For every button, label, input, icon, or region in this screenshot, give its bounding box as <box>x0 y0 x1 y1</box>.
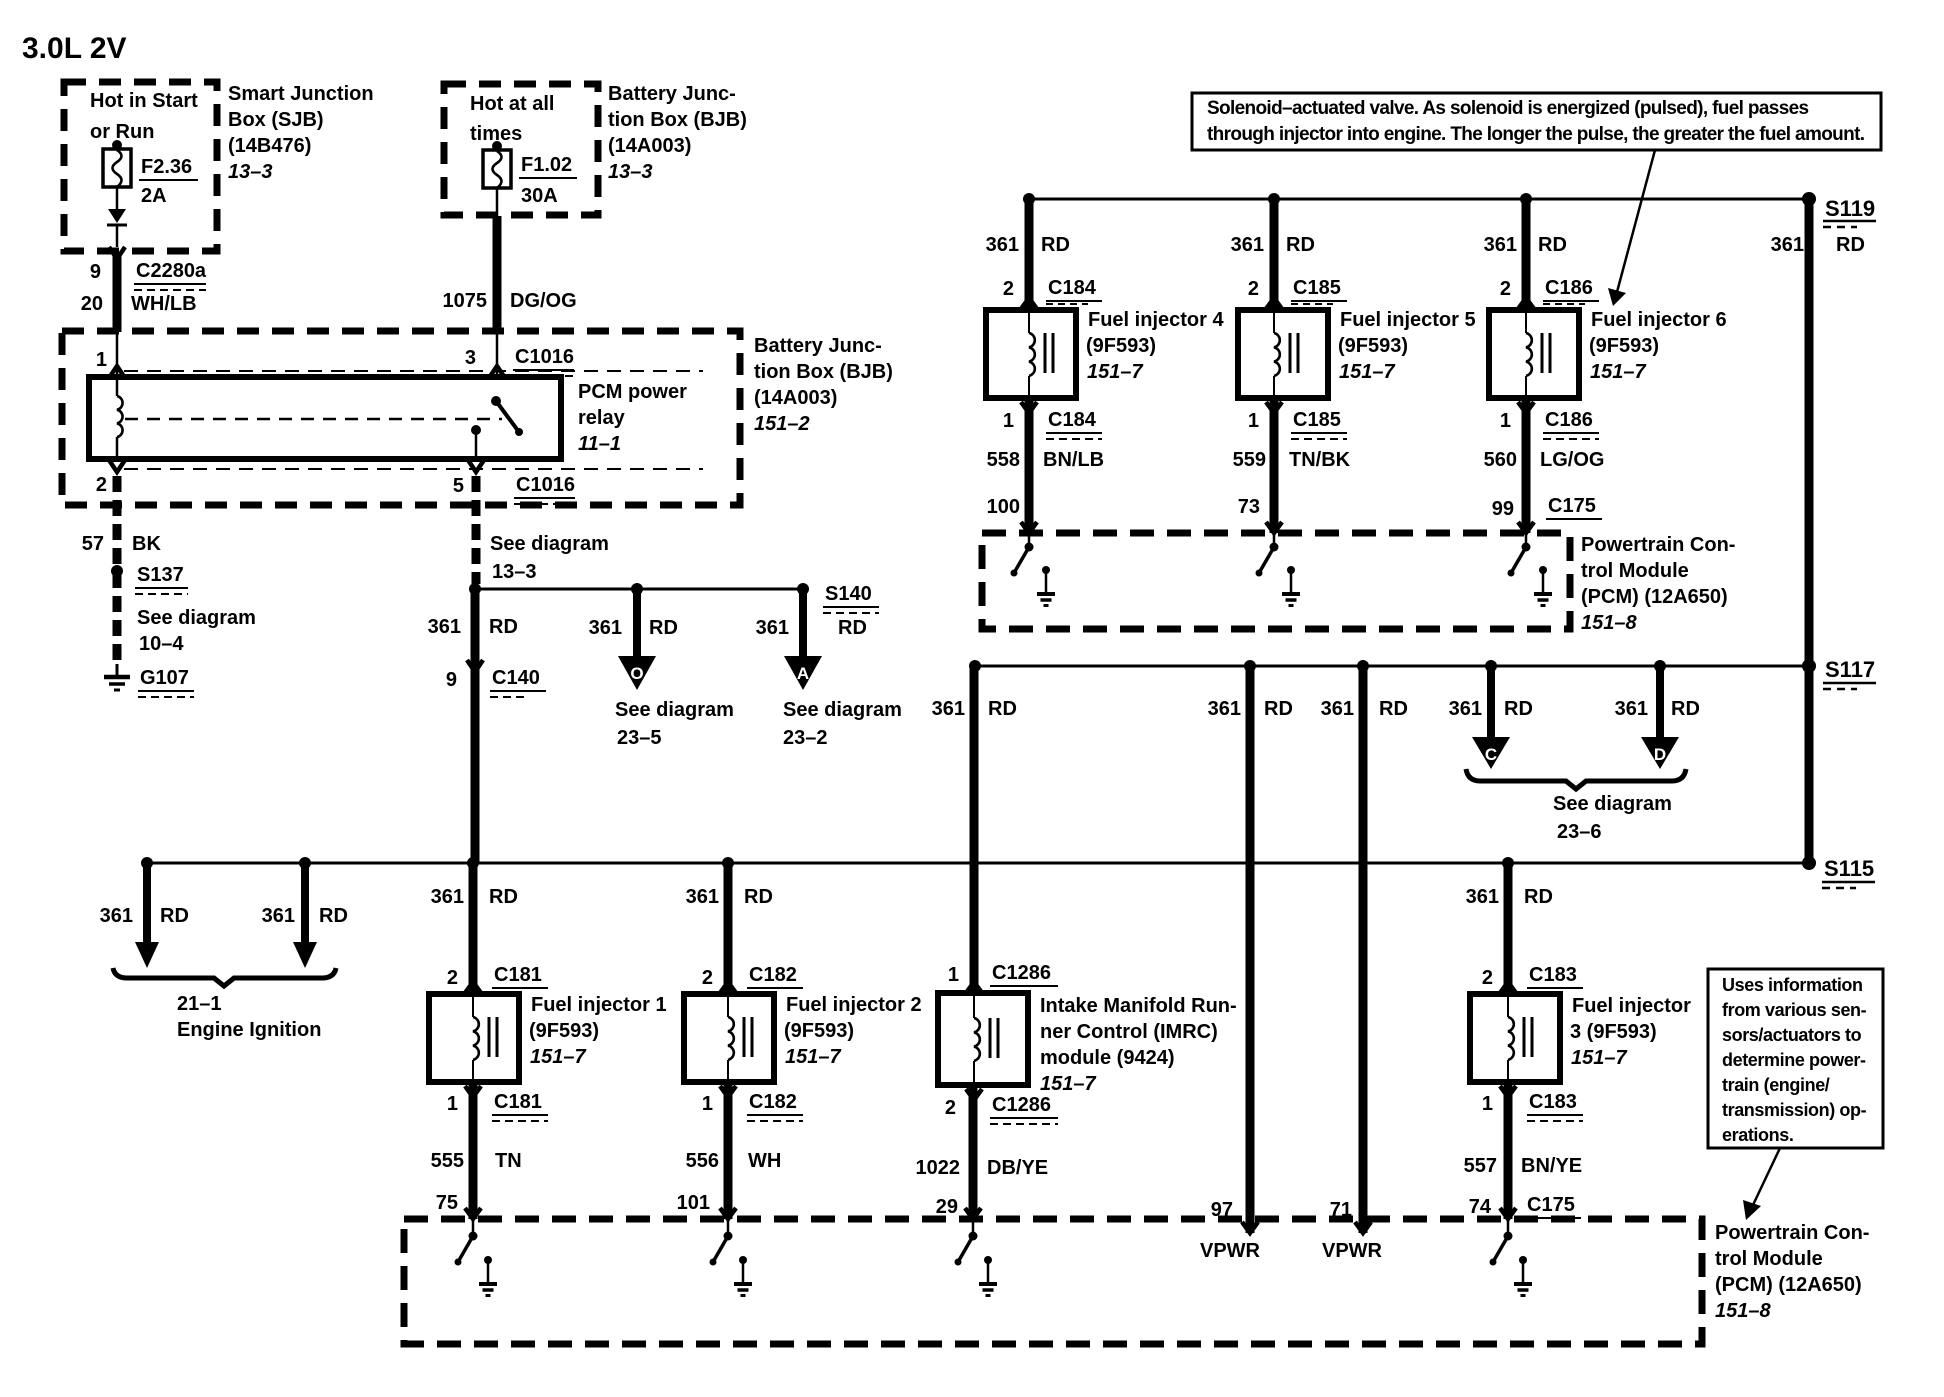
svg-text:Smart Junction: Smart Junction <box>228 83 374 105</box>
svg-text:361: 361 <box>428 616 461 638</box>
wire 558 BN/LB to PCM pin 100 <box>987 398 1104 533</box>
label 21-1 Engine Ignition <box>177 993 321 1041</box>
svg-text:Fuel injector: Fuel injector <box>1572 995 1691 1017</box>
fuel injector FI5 box <box>1238 310 1328 398</box>
node junction S119 at FI4 <box>1023 193 1035 205</box>
label Fuel injector 1 (9F593) 151-7 <box>529 994 667 1068</box>
wire 361 RD to FI6 <box>1484 199 1567 310</box>
svg-text:74: 74 <box>1469 1196 1492 1218</box>
svg-text:train (engine/: train (engine/ <box>1722 1075 1830 1095</box>
svg-text:DG/OG: DG/OG <box>510 290 577 312</box>
svg-text:RD: RD <box>1041 234 1070 256</box>
label 1075 DG/OG <box>443 290 577 312</box>
svg-text:module (9424): module (9424) <box>1040 1047 1174 1069</box>
IMRC module box <box>938 993 1028 1085</box>
brace see diagram 23-6 <box>1466 769 1686 789</box>
svg-text:29: 29 <box>936 1196 958 1218</box>
switch PCM driver FI2 <box>710 1219 733 1266</box>
label Battery Junction Box (BJB) (14A003) 151-2 <box>754 335 893 435</box>
connector C185 pin 1 <box>1248 402 1347 439</box>
svg-text:Box (SJB): Box (SJB) <box>228 109 324 131</box>
svg-text:See diagram: See diagram <box>615 699 734 721</box>
box Battery Junction Box (BJB) relay dashed outline <box>62 331 740 505</box>
fuel injector FI1 box <box>429 994 519 1082</box>
svg-text:sors/actuators to: sors/actuators to <box>1722 1025 1862 1045</box>
svg-text:1: 1 <box>948 964 959 986</box>
wire bus S115 <box>147 862 1809 865</box>
svg-text:See diagram: See diagram <box>1553 793 1672 815</box>
svg-text:Battery Junc-: Battery Junc- <box>608 83 736 105</box>
svg-text:C186: C186 <box>1545 409 1593 431</box>
svg-text:C1016: C1016 <box>515 346 574 368</box>
label 20 WH/LB <box>81 293 197 315</box>
splice S119 <box>1802 192 1876 227</box>
wire 556 WH to PCM pin 101 <box>677 1082 782 1219</box>
svg-text:from various sen-: from various sen- <box>1722 1000 1867 1020</box>
svg-text:C175: C175 <box>1527 1194 1575 1216</box>
svg-text:determine power-: determine power- <box>1722 1050 1866 1070</box>
svg-text:Solenoid–actuated valve. As so: Solenoid–actuated valve. As solenoid is … <box>1207 98 1809 119</box>
svg-text:13–3: 13–3 <box>608 161 653 183</box>
svg-text:361: 361 <box>1771 234 1804 256</box>
svg-text:1075: 1075 <box>443 290 488 312</box>
svg-text:11–1: 11–1 <box>578 433 621 455</box>
node junction S119 at FI6 <box>1520 193 1532 205</box>
node splice junction at feed <box>469 583 481 595</box>
svg-text:151–8: 151–8 <box>1581 612 1637 634</box>
switch PCM driver FI6 <box>1508 533 1531 577</box>
fuel injector FI2 box <box>684 994 774 1082</box>
switch PCM driver FI1 <box>455 1219 478 1266</box>
wire bus S117 <box>975 665 1809 668</box>
svg-text:(9F593): (9F593) <box>529 1020 599 1042</box>
label Smart Junction Box (SJB) (14B476) 13-3 <box>228 83 374 183</box>
ground PCM driver FI1 <box>479 1256 497 1296</box>
svg-text:C1286: C1286 <box>992 1094 1051 1116</box>
wire main 361 RD feed down to S115 <box>471 589 480 863</box>
node junction S115 at FI1 <box>467 857 479 869</box>
svg-text:(9F593): (9F593) <box>1338 335 1408 357</box>
svg-text:C1016: C1016 <box>516 474 575 496</box>
svg-text:1: 1 <box>1482 1093 1493 1115</box>
svg-text:S119: S119 <box>1825 196 1875 221</box>
svg-text:TN: TN <box>495 1150 522 1172</box>
svg-text:(14B476): (14B476) <box>228 135 311 157</box>
svg-text:RD: RD <box>744 886 773 908</box>
title 3.0L 2V <box>22 32 127 65</box>
svg-text:361: 361 <box>1321 698 1354 720</box>
svg-text:See diagram: See diagram <box>137 607 256 629</box>
svg-text:151–7: 151–7 <box>785 1046 841 1068</box>
svg-text:361: 361 <box>100 905 133 927</box>
svg-text:tion Box (BJB): tion Box (BJB) <box>608 109 747 131</box>
svg-text:2: 2 <box>1482 967 1493 989</box>
svg-text:or Run: or Run <box>90 121 154 143</box>
svg-text:2: 2 <box>702 967 713 989</box>
wire bus S119 <box>1029 198 1809 201</box>
svg-text:C183: C183 <box>1529 1091 1577 1113</box>
arrow O to diagram 23-5 <box>618 583 656 690</box>
svg-text:RD: RD <box>160 905 189 927</box>
svg-text:(14A003): (14A003) <box>608 135 691 157</box>
svg-text:C182: C182 <box>749 964 797 986</box>
label 5 C1016 <box>453 474 575 504</box>
svg-text:3.0L 2V: 3.0L 2V <box>22 32 127 65</box>
svg-text:Uses information: Uses information <box>1722 975 1863 995</box>
svg-text:20: 20 <box>81 293 103 315</box>
wire 560 LG/OG to PCM pin 99 C175 <box>1484 398 1605 533</box>
svg-text:C184: C184 <box>1048 277 1097 299</box>
svg-text:23–6: 23–6 <box>1557 821 1602 843</box>
wire 361 RD to FI2 <box>686 863 773 994</box>
wire 361 RD to FI5 <box>1231 199 1315 310</box>
svg-text:1022: 1022 <box>916 1157 961 1179</box>
connector C182 pin 2 <box>702 964 803 993</box>
wire VPWR 71 down to PCM <box>1321 666 1408 1233</box>
svg-text:VPWR: VPWR <box>1200 1240 1261 1262</box>
svg-text:57: 57 <box>82 533 104 555</box>
svg-text:560: 560 <box>1484 449 1517 471</box>
svg-text:Fuel injector 4: Fuel injector 4 <box>1088 309 1224 331</box>
ground PCM driver IMRC <box>979 1256 997 1296</box>
label See diagram 10-4 <box>137 607 256 655</box>
relay coil-switch dashed link <box>125 418 502 421</box>
svg-text:361: 361 <box>1449 698 1482 720</box>
svg-text:C185: C185 <box>1293 409 1341 431</box>
svg-text:2: 2 <box>945 1097 956 1119</box>
svg-text:97: 97 <box>1211 1199 1233 1221</box>
svg-text:erations.: erations. <box>1722 1125 1793 1145</box>
label 361 RD at A arrow <box>756 617 867 639</box>
wire VPWR 97 down to PCM <box>1208 666 1293 1233</box>
wire 361 RD to IMRC module <box>932 666 1017 993</box>
connector C1286 pin 1 <box>948 962 1058 993</box>
svg-text:C181: C181 <box>494 1091 542 1113</box>
fuel injector FI6 box <box>1489 310 1579 398</box>
note arrow to PCM <box>1743 1148 1780 1220</box>
diode symbol below fuse F2.36 <box>107 209 127 247</box>
svg-text:151–7: 151–7 <box>1590 361 1646 383</box>
label VPWR 71 <box>1322 1199 1383 1262</box>
arrow engine ignition left <box>135 857 159 968</box>
svg-text:151–7: 151–7 <box>1571 1047 1627 1069</box>
svg-text:RD: RD <box>1524 886 1553 908</box>
connector C182 pin 1 <box>702 1086 803 1121</box>
pin 5 wire out of relay switch <box>468 460 484 472</box>
pin 3 wire into relay switch <box>489 332 505 378</box>
wire WH/LB from SJB to BJB pin 1 <box>113 252 122 332</box>
label See diagram 23-5 <box>615 699 734 749</box>
connector C1286 pin 2 <box>945 1089 1058 1124</box>
arrow A to diagram 23-2 <box>784 589 822 690</box>
svg-text:30A: 30A <box>521 185 558 207</box>
svg-text:13–3: 13–3 <box>228 161 273 183</box>
label Hot in Start or Run <box>90 90 198 143</box>
svg-text:S137: S137 <box>137 564 184 586</box>
label Fuel injector 3 (9F593) 151-7 <box>1570 995 1691 1069</box>
svg-text:C185: C185 <box>1293 277 1341 299</box>
svg-text:C1286: C1286 <box>992 962 1051 984</box>
label See diagram 13-3 <box>490 533 609 583</box>
connector C184 pin 2 <box>1003 277 1102 309</box>
label Fuel injector 2 (9F593) 151-7 <box>784 994 922 1068</box>
svg-text:Powertrain Con-: Powertrain Con- <box>1581 534 1735 556</box>
svg-text:D: D <box>1654 745 1666 764</box>
svg-text:O: O <box>630 664 643 683</box>
svg-text:RD: RD <box>319 905 348 927</box>
wire 555 TN to PCM pin 75 <box>431 1082 522 1219</box>
svg-text:151–2: 151–2 <box>754 413 810 435</box>
node junction S115 at FI3 <box>1502 857 1514 869</box>
note box uses information <box>1708 969 1883 1148</box>
box Powertrain Control Module PCM top dashed <box>982 533 1570 629</box>
node junction S117 VPWR 97 <box>1244 660 1256 672</box>
svg-text:RD: RD <box>988 698 1017 720</box>
svg-text:RD: RD <box>1264 698 1293 720</box>
arrow D to diagram 23-6 <box>1641 660 1679 769</box>
svg-text:F1.02: F1.02 <box>521 154 572 176</box>
wire right bus 361 RD vertical <box>1805 199 1814 863</box>
svg-text:1: 1 <box>1248 410 1259 432</box>
svg-text:WH/LB: WH/LB <box>131 293 197 315</box>
svg-text:557: 557 <box>1464 1155 1497 1177</box>
label PCM power relay 11-1 <box>578 381 687 455</box>
svg-text:(PCM) (12A650): (PCM) (12A650) <box>1581 586 1728 608</box>
connector C2280a pass-through arrow pin 9 <box>109 247 125 259</box>
svg-text:S115: S115 <box>1824 856 1874 881</box>
svg-text:S117: S117 <box>1825 657 1875 682</box>
svg-text:relay: relay <box>578 407 626 429</box>
svg-text:BK: BK <box>132 533 161 555</box>
svg-text:RD: RD <box>1671 698 1700 720</box>
svg-text:VPWR: VPWR <box>1322 1240 1383 1262</box>
svg-text:Fuel injector 1: Fuel injector 1 <box>531 994 667 1016</box>
svg-text:361: 361 <box>686 886 719 908</box>
svg-text:361: 361 <box>1615 698 1648 720</box>
label Fuel injector 5 (9F593) 151-7 <box>1338 309 1476 383</box>
wire BK pin2 dashed to ground <box>113 476 122 664</box>
svg-text:LG/OG: LG/OG <box>1540 449 1604 471</box>
svg-text:C2280a: C2280a <box>136 260 207 282</box>
svg-text:(9F593): (9F593) <box>1086 335 1156 357</box>
label 361 RD right bus <box>1771 234 1865 256</box>
svg-text:(9F593): (9F593) <box>784 1020 854 1042</box>
svg-text:1: 1 <box>702 1093 713 1115</box>
svg-text:2: 2 <box>96 474 107 496</box>
label Fuel injector 4 (9F593) 151-7 <box>1086 309 1224 383</box>
svg-text:1: 1 <box>447 1093 458 1115</box>
svg-text:S140: S140 <box>825 583 872 605</box>
label 57 BK <box>82 533 162 555</box>
note box solenoid-actuated valve <box>1192 93 1881 150</box>
switch PCM driver FI4 <box>1011 533 1034 577</box>
label VPWR 97 <box>1200 1199 1261 1262</box>
svg-text:23–5: 23–5 <box>617 727 662 749</box>
svg-text:361: 361 <box>431 886 464 908</box>
arrow C to diagram 23-6 <box>1472 660 1510 769</box>
svg-text:RD: RD <box>1379 698 1408 720</box>
svg-text:361: 361 <box>1231 234 1264 256</box>
label 361 RD ignition left <box>100 905 189 927</box>
connector C183 pin 2 <box>1482 964 1583 993</box>
svg-text:151–8: 151–8 <box>1715 1300 1771 1322</box>
svg-text:Battery Junc-: Battery Junc- <box>754 335 882 357</box>
svg-text:2: 2 <box>1248 278 1259 300</box>
svg-text:transmission) op-: transmission) op- <box>1722 1100 1867 1120</box>
box Powertrain Control Module PCM bottom dashed <box>404 1219 1702 1344</box>
label 361 RD at D arrow <box>1615 698 1700 720</box>
wire 557 BN/YE to PCM pin 74 C175 <box>1464 1082 1583 1219</box>
svg-text:361: 361 <box>1484 234 1517 256</box>
splice S137 <box>111 564 188 594</box>
wire 361 RD to FI1 <box>431 863 518 994</box>
svg-text:WH: WH <box>748 1150 781 1172</box>
switch PCM driver FI5 <box>1256 533 1279 577</box>
svg-text:TN/BK: TN/BK <box>1289 449 1351 471</box>
label Powertrain Control Module (PCM) (12A650) 151-8 bottom <box>1715 1222 1869 1322</box>
svg-text:2: 2 <box>1500 278 1511 300</box>
svg-text:PCM power: PCM power <box>578 381 687 403</box>
relay U1 PCM power relay box <box>89 377 561 459</box>
pin 2 wire out of relay coil <box>96 460 125 496</box>
connector C186 pin 1 <box>1500 402 1599 439</box>
svg-text:BN/LB: BN/LB <box>1043 449 1104 471</box>
svg-text:151–7: 151–7 <box>1040 1073 1096 1095</box>
svg-text:361: 361 <box>986 234 1019 256</box>
connector C184 pin 1 <box>1003 402 1102 439</box>
svg-text:C186: C186 <box>1545 277 1593 299</box>
wire 559 TN/BK to PCM pin 73 <box>1233 398 1351 533</box>
connector C1016 dashed plane top <box>124 370 703 372</box>
svg-text:361: 361 <box>932 698 965 720</box>
connector C183 pin 1 <box>1482 1086 1583 1121</box>
svg-text:ner Control (IMRC): ner Control (IMRC) <box>1040 1021 1218 1043</box>
svg-text:G107: G107 <box>140 667 189 689</box>
svg-text:See diagram: See diagram <box>783 699 902 721</box>
label See diagram 23-6 <box>1553 793 1672 843</box>
svg-text:Hot at all: Hot at all <box>470 93 554 115</box>
svg-text:Hot in Start: Hot in Start <box>90 90 198 112</box>
svg-text:C183: C183 <box>1529 964 1577 986</box>
box Battery Junction Box (BJB) fuse dashed outline <box>444 84 598 215</box>
node junction S117 VPWR 71 <box>1357 660 1369 672</box>
svg-text:RD: RD <box>489 886 518 908</box>
ground G107 <box>104 664 194 697</box>
svg-text:555: 555 <box>431 1150 464 1172</box>
svg-text:tion Box (BJB): tion Box (BJB) <box>754 361 893 383</box>
splice S115 <box>1802 856 1875 888</box>
svg-text:Fuel injector 2: Fuel injector 2 <box>786 994 922 1016</box>
pin 1 wire into relay coil <box>96 332 125 378</box>
svg-text:BN/YE: BN/YE <box>1521 1155 1582 1177</box>
wire S140 horizontal link <box>475 588 803 591</box>
svg-text:trol Module: trol Module <box>1581 560 1689 582</box>
label Battery Junction Box (BJB) (14A003) 13-3 <box>608 83 747 183</box>
svg-text:71: 71 <box>1330 1199 1352 1221</box>
svg-text:A: A <box>797 664 809 683</box>
svg-text:5: 5 <box>453 475 464 497</box>
label Hot at all times <box>470 93 554 145</box>
wire 361 RD to FI3 <box>1466 863 1553 994</box>
label 9 C2280a <box>90 260 207 290</box>
fuse F2.36 2A <box>103 140 131 209</box>
svg-text:F2.36: F2.36 <box>141 156 192 178</box>
svg-text:151–7: 151–7 <box>1339 361 1395 383</box>
label Intake Manifold Runner Control (IMRC) module (9424) 151-7 <box>1040 995 1237 1095</box>
svg-text:151–7: 151–7 <box>530 1046 586 1068</box>
relay coil <box>117 377 123 459</box>
svg-text:See diagram: See diagram <box>490 533 609 555</box>
svg-text:151–7: 151–7 <box>1087 361 1143 383</box>
connector C185 pin 2 <box>1248 277 1347 309</box>
svg-text:73: 73 <box>1238 496 1260 518</box>
svg-text:Powertrain Con-: Powertrain Con- <box>1715 1222 1869 1244</box>
svg-text:trol Module: trol Module <box>1715 1248 1823 1270</box>
svg-text:101: 101 <box>677 1192 710 1214</box>
svg-text:C184: C184 <box>1048 409 1097 431</box>
svg-text:RD: RD <box>1504 698 1533 720</box>
svg-text:RD: RD <box>649 617 678 639</box>
svg-text:361: 361 <box>756 617 789 639</box>
svg-text:through injector into engine.: through injector into engine. The longer… <box>1207 124 1864 145</box>
svg-text:1: 1 <box>1003 410 1014 432</box>
box Smart Junction Box (SJB) dashed outline <box>64 82 217 251</box>
ground PCM driver FI2 <box>734 1256 752 1296</box>
fuse F1.02 30A <box>483 141 511 216</box>
svg-text:RD: RD <box>838 617 867 639</box>
connector C181 pin 2 <box>447 964 548 993</box>
wire 1022 DB/YE to PCM pin 29 <box>916 1085 1049 1219</box>
connector C140 pass-through pin 9 <box>446 660 546 697</box>
svg-text:361: 361 <box>262 905 295 927</box>
svg-text:21–1: 21–1 <box>177 993 222 1015</box>
svg-text:75: 75 <box>436 1192 458 1214</box>
svg-text:DB/YE: DB/YE <box>987 1157 1048 1179</box>
splice S117 <box>1802 657 1876 689</box>
svg-text:C140: C140 <box>492 667 540 689</box>
fuel injector FI4 box <box>986 310 1076 398</box>
svg-text:Fuel injector 6: Fuel injector 6 <box>1591 309 1727 331</box>
connector C181 pin 1 <box>447 1086 548 1121</box>
splice S140 <box>797 583 879 613</box>
svg-text:1: 1 <box>96 349 107 371</box>
svg-text:9: 9 <box>90 261 101 283</box>
svg-text:99: 99 <box>1492 498 1514 520</box>
svg-text:2A: 2A <box>141 185 167 207</box>
ground PCM driver FI5 <box>1282 566 1300 606</box>
svg-text:2: 2 <box>1003 278 1014 300</box>
ground PCM driver FI3 <box>1514 1256 1532 1296</box>
wire pin5 dashed see-diagram 13-3 <box>472 476 481 584</box>
svg-text:23–2: 23–2 <box>783 727 828 749</box>
node junction S117 IMRC <box>969 660 981 672</box>
svg-text:Intake Manifold Run-: Intake Manifold Run- <box>1040 995 1237 1017</box>
svg-text:RD: RD <box>1836 234 1865 256</box>
relay switch <box>471 396 523 459</box>
fuel injector FI3 box <box>1470 994 1560 1082</box>
svg-text:RD: RD <box>489 616 518 638</box>
switch PCM driver FI3 <box>1490 1219 1513 1266</box>
svg-text:(PCM) (12A650): (PCM) (12A650) <box>1715 1274 1862 1296</box>
svg-text:RD: RD <box>1538 234 1567 256</box>
label 361 RD at C arrow <box>1449 698 1533 720</box>
node junction S119 at FI5 <box>1268 193 1280 205</box>
ground PCM driver FI4 <box>1037 566 1055 606</box>
connector C1016 dashed plane bottom <box>124 468 703 470</box>
svg-text:10–4: 10–4 <box>139 633 184 655</box>
label Powertrain Control Module (PCM) (12A650) 151-8 top <box>1581 534 1735 634</box>
label 361 RD ignition right <box>262 905 348 927</box>
